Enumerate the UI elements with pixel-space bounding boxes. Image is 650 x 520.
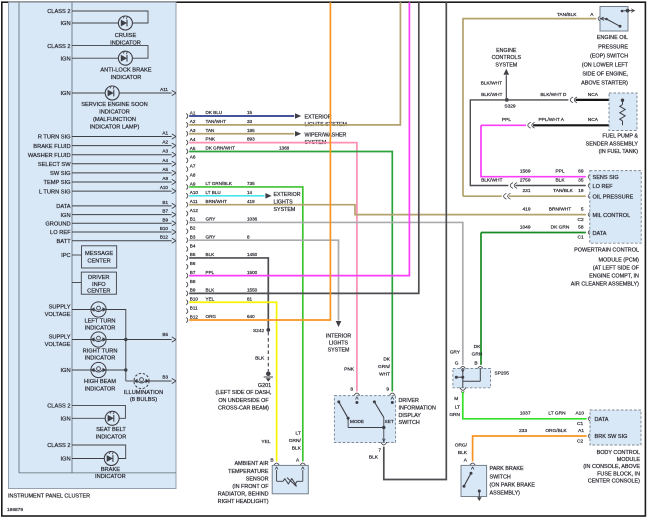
svg-text:BLK/WHT: BLK/WHT (481, 177, 502, 183)
svg-text:(MALFUNCTION: (MALFUNCTION (93, 117, 136, 123)
svg-text:PPL: PPL (555, 169, 564, 175)
svg-text:8: 8 (350, 387, 353, 393)
svg-text:(LEFT SIDE OF DASH,: (LEFT SIDE OF DASH, (216, 390, 272, 396)
svg-text:5: 5 (581, 207, 584, 213)
svg-text:LT: LT (455, 404, 460, 410)
svg-text:A9: A9 (162, 176, 168, 181)
svg-text:INDICATOR: INDICATOR (85, 386, 116, 392)
svg-text:14: 14 (247, 190, 253, 195)
svg-text:MODULE (PCM): MODULE (PCM) (599, 258, 640, 264)
svg-text:BRK SW SIG: BRK SW SIG (595, 434, 628, 440)
svg-text:BRAKE: BRAKE (101, 467, 120, 473)
svg-text:ABOVE STARTER): ABOVE STARTER) (581, 81, 628, 87)
svg-text:419: 419 (247, 199, 255, 204)
svg-text:BLK: BLK (555, 177, 565, 183)
svg-text:HIGH BEAM: HIGH BEAM (84, 379, 116, 385)
svg-text:MIL CONTROL: MIL CONTROL (593, 213, 631, 219)
svg-text:BLK: BLK (255, 356, 265, 362)
svg-text:BRAKE FLUID: BRAKE FLUID (33, 144, 70, 150)
svg-text:POWERTRAIN CONTROL: POWERTRAIN CONTROL (574, 248, 639, 254)
svg-text:SP205: SP205 (495, 370, 510, 376)
svg-text:B7: B7 (162, 209, 168, 214)
svg-text:B9: B9 (190, 288, 196, 293)
svg-text:INDICATOR: INDICATOR (95, 474, 126, 480)
svg-text:C1: C1 (578, 235, 584, 241)
svg-text:BATT: BATT (56, 239, 71, 245)
svg-text:A5: A5 (162, 167, 168, 172)
svg-text:81: 81 (247, 296, 253, 301)
svg-text:231: 231 (522, 188, 530, 194)
svg-text:INFORMATION: INFORMATION (399, 405, 436, 411)
svg-text:LIGHTS: LIGHTS (329, 340, 349, 346)
svg-text:TAN/BLK: TAN/BLK (553, 188, 573, 194)
svg-text:B4: B4 (190, 243, 196, 248)
svg-text:B1: B1 (190, 217, 196, 222)
svg-text:B8: B8 (190, 279, 196, 284)
svg-text:PARK BRAKE: PARK BRAKE (490, 466, 524, 472)
svg-text:INDICATOR: INDICATOR (85, 326, 116, 332)
svg-text:DRIVER: DRIVER (399, 398, 419, 404)
svg-text:ON UNDERSIDE OF: ON UNDERSIDE OF (218, 398, 269, 404)
svg-text:A3: A3 (190, 128, 196, 133)
svg-text:SUPPLY: SUPPLY (49, 304, 71, 310)
svg-text:EXTERIOR: EXTERIOR (305, 115, 332, 121)
svg-text:GRN/: GRN/ (378, 364, 391, 370)
svg-text:BODY CONTROL: BODY CONTROL (597, 450, 640, 456)
svg-text:A5: A5 (190, 146, 196, 151)
svg-text:BLK/WHT D: BLK/WHT D (540, 92, 567, 98)
svg-text:ENGINE OIL: ENGINE OIL (597, 35, 628, 41)
svg-text:IGN: IGN (60, 368, 70, 374)
svg-text:SUPPLY: SUPPLY (49, 334, 71, 340)
svg-text:CENTER CONSOLE): CENTER CONSOLE) (588, 478, 640, 484)
svg-text:FUEL PUMP &: FUEL PUMP & (602, 134, 638, 140)
svg-text:CLASS 2: CLASS 2 (47, 9, 70, 15)
svg-text:DATA: DATA (56, 204, 71, 210)
svg-text:DRIVER: DRIVER (88, 275, 110, 281)
svg-text:WASHER FLUID: WASHER FLUID (28, 153, 71, 159)
svg-text:ORG/BLK: ORG/BLK (545, 428, 567, 434)
svg-text:G: G (455, 361, 459, 367)
svg-text:9: 9 (386, 387, 389, 393)
svg-text:58: 58 (578, 224, 584, 230)
svg-text:RIGHT HEADLIGHT): RIGHT HEADLIGHT) (218, 499, 269, 505)
svg-text:A1: A1 (190, 110, 196, 115)
svg-text:B11: B11 (190, 305, 198, 310)
svg-text:A6: A6 (190, 155, 196, 160)
svg-text:A7: A7 (190, 164, 196, 169)
svg-text:TAN: TAN (206, 128, 215, 133)
svg-text:B3: B3 (190, 234, 196, 239)
svg-text:186879: 186879 (7, 507, 23, 513)
svg-text:M: M (454, 396, 458, 402)
svg-text:A4: A4 (190, 137, 196, 142)
svg-text:893: 893 (247, 137, 255, 142)
svg-text:LEFT TURN: LEFT TURN (84, 318, 115, 324)
svg-text:69: 69 (578, 169, 584, 175)
svg-text:B: B (270, 458, 273, 464)
svg-text:DATA: DATA (595, 417, 609, 423)
svg-text:1037: 1037 (520, 411, 531, 417)
svg-text:1036: 1036 (247, 217, 258, 222)
svg-text:BLK: BLK (369, 455, 379, 461)
svg-text:33: 33 (247, 119, 253, 124)
svg-text:AMBIENT AIR: AMBIENT AIR (234, 461, 268, 467)
svg-text:AIR CLEANER ASSEMBLY): AIR CLEANER ASSEMBLY) (571, 281, 639, 287)
svg-text:PPL: PPL (206, 270, 215, 275)
svg-text:LT BLU: LT BLU (206, 190, 221, 195)
svg-text:C2: C2 (577, 438, 583, 444)
svg-text:TEMP SIG: TEMP SIG (44, 180, 71, 186)
svg-text:SEAT BELT: SEAT BELT (96, 427, 126, 433)
svg-text:BRN/WHT: BRN/WHT (206, 199, 228, 204)
svg-text:B1: B1 (162, 200, 168, 205)
svg-text:(AT LEFT SIDE OF: (AT LEFT SIDE OF (593, 266, 640, 272)
svg-text:A2: A2 (162, 140, 168, 145)
svg-text:GRN: GRN (472, 351, 483, 357)
svg-text:ANTI-LOCK BRAKE: ANTI-LOCK BRAKE (100, 67, 151, 73)
svg-text:C1: C1 (577, 421, 583, 427)
svg-text:VOLTAGE: VOLTAGE (45, 312, 71, 318)
svg-text:A11: A11 (190, 199, 198, 204)
svg-text:B12: B12 (160, 235, 169, 240)
svg-text:SET: SET (385, 419, 394, 424)
svg-text:EXTERIOR: EXTERIOR (274, 192, 301, 198)
svg-text:S329: S329 (504, 104, 516, 110)
svg-text:IGN: IGN (60, 56, 70, 62)
svg-text:2759: 2759 (520, 177, 531, 183)
svg-text:CENTER: CENTER (87, 288, 110, 294)
svg-text:INDICATOR: INDICATOR (96, 434, 127, 440)
svg-text:B3: B3 (162, 374, 168, 379)
svg-text:A1: A1 (578, 428, 584, 434)
svg-text:B6: B6 (190, 261, 196, 266)
svg-text:INSTRUMENT PANEL CLUSTER: INSTRUMENT PANEL CLUSTER (8, 493, 90, 499)
svg-text:(8 BULBS): (8 BULBS) (130, 397, 157, 403)
svg-text:233: 233 (519, 428, 527, 434)
svg-text:FUSE BLOCK, IN: FUSE BLOCK, IN (597, 471, 640, 477)
svg-text:IGN: IGN (60, 91, 70, 97)
svg-text:C2: C2 (578, 217, 584, 223)
svg-text:TAN/WHT: TAN/WHT (206, 119, 227, 124)
svg-text:419: 419 (522, 207, 530, 213)
svg-text:IPC: IPC (61, 253, 70, 259)
svg-text:S242: S242 (253, 328, 265, 334)
svg-text:MODE: MODE (350, 419, 364, 424)
svg-text:B10: B10 (190, 297, 199, 302)
svg-text:VOLTAGE: VOLTAGE (45, 342, 71, 348)
svg-text:19: 19 (578, 188, 584, 194)
svg-text:BLK: BLK (458, 450, 468, 456)
svg-text:PNK: PNK (344, 367, 355, 373)
svg-text:640: 640 (247, 314, 255, 319)
svg-text:SERVICE ENGINE SOON: SERVICE ENGINE SOON (81, 102, 148, 108)
svg-text:NCA: NCA (588, 117, 599, 123)
svg-text:B5: B5 (162, 332, 168, 337)
svg-text:BLK: BLK (206, 288, 216, 293)
svg-text:INDICATOR: INDICATOR (111, 75, 142, 81)
svg-text:(EOP) SWITCH: (EOP) SWITCH (590, 53, 628, 59)
svg-text:SENDER ASSEMBLY: SENDER ASSEMBLY (586, 141, 639, 147)
svg-text:BRN/WHT: BRN/WHT (549, 207, 571, 213)
svg-text:ENGINE COMPT, IN: ENGINE COMPT, IN (589, 273, 639, 279)
svg-text:A4: A4 (162, 158, 168, 163)
svg-text:ORG: ORG (206, 314, 217, 319)
svg-text:GRY: GRY (450, 350, 461, 356)
svg-text:B7: B7 (190, 270, 196, 275)
svg-text:CLASS 2: CLASS 2 (47, 443, 70, 449)
svg-text:WHT: WHT (379, 371, 390, 377)
svg-text:A2: A2 (190, 119, 196, 124)
svg-text:B10: B10 (160, 226, 169, 231)
svg-text:INDICATOR: INDICATOR (99, 110, 130, 116)
svg-text:B12: B12 (190, 314, 199, 319)
svg-text:R TURN SIG: R TURN SIG (38, 135, 71, 141)
svg-text:DK: DK (474, 344, 481, 350)
svg-text:CONTROLS: CONTROLS (492, 55, 522, 61)
svg-text:BLK: BLK (292, 446, 302, 452)
svg-text:SELECT SW: SELECT SW (38, 162, 71, 168)
svg-text:(ON LOWER LEFT: (ON LOWER LEFT (582, 63, 629, 69)
svg-text:MODULE: MODULE (617, 457, 641, 463)
svg-text:7: 7 (378, 447, 381, 453)
svg-text:IGN: IGN (60, 417, 70, 423)
svg-text:GRY: GRY (206, 217, 216, 222)
svg-text:NCA: NCA (588, 92, 599, 98)
svg-text:MESSAGE: MESSAGE (85, 251, 113, 257)
svg-text:BLK/WHT: BLK/WHT (481, 81, 502, 87)
svg-text:DISPLAY: DISPLAY (399, 413, 422, 419)
svg-text:GRN/: GRN/ (289, 438, 302, 444)
svg-text:185: 185 (247, 128, 255, 133)
svg-text:35: 35 (578, 177, 584, 183)
svg-text:SYSTEM: SYSTEM (495, 62, 517, 68)
svg-text:(IN FRONT OF: (IN FRONT OF (232, 484, 269, 490)
svg-text:A8: A8 (190, 172, 196, 177)
svg-text:A9: A9 (190, 181, 196, 186)
svg-text:PNK: PNK (206, 137, 216, 142)
svg-text:ILLUMINATION: ILLUMINATION (124, 390, 163, 396)
svg-text:A3: A3 (162, 149, 168, 154)
svg-text:DK: DK (383, 356, 390, 362)
svg-text:A10: A10 (575, 411, 584, 417)
svg-text:A10: A10 (190, 190, 199, 195)
svg-text:A12: A12 (190, 208, 199, 213)
svg-text:INFO: INFO (92, 282, 106, 288)
svg-text:15: 15 (247, 110, 253, 115)
svg-text:L TURN SIG: L TURN SIG (39, 189, 71, 195)
svg-text:INDICATOR: INDICATOR (85, 356, 116, 362)
svg-text:LT: LT (296, 431, 301, 437)
svg-text:OIL PRESSURE: OIL PRESSURE (593, 195, 634, 201)
svg-text:ENGINE: ENGINE (496, 48, 517, 54)
svg-text:SWITCH: SWITCH (490, 474, 511, 480)
svg-text:GROUND: GROUND (45, 222, 70, 228)
svg-text:INDICATOR LAMP): INDICATOR LAMP) (90, 124, 140, 130)
svg-text:DATA: DATA (593, 231, 607, 237)
svg-text:BLK/WHT: BLK/WHT (481, 92, 502, 98)
svg-text:CRUISE: CRUISE (115, 33, 137, 39)
svg-text:RIGHT TURN: RIGHT TURN (83, 348, 118, 354)
svg-text:SIDE OF ENGINE,: SIDE OF ENGINE, (582, 72, 628, 78)
svg-text:A1: A1 (162, 131, 168, 136)
svg-text:DK GRN/WHT: DK GRN/WHT (206, 146, 236, 151)
svg-text:CENTER: CENTER (87, 258, 110, 264)
svg-text:CROSS-CAR BEAM): CROSS-CAR BEAM) (218, 406, 269, 412)
svg-text:B9: B9 (162, 217, 168, 222)
svg-text:DK BLU: DK BLU (206, 110, 223, 115)
svg-text:SYSTEM: SYSTEM (328, 348, 350, 354)
svg-text:GRN: GRN (449, 412, 460, 418)
svg-text:TAN/BLK: TAN/BLK (557, 12, 577, 18)
svg-text:A10: A10 (160, 185, 169, 190)
svg-text:PRESSURE: PRESSURE (598, 44, 628, 50)
svg-text:TEMPERATURE: TEMPERATURE (228, 469, 269, 475)
svg-text:YEL: YEL (206, 296, 215, 301)
svg-text:(IN CONSOLE, ABOVE: (IN CONSOLE, ABOVE (583, 464, 640, 470)
svg-text:B5: B5 (190, 252, 196, 257)
svg-text:B2: B2 (190, 226, 196, 231)
svg-text:CLASS 2: CLASS 2 (47, 44, 70, 50)
svg-text:1589: 1589 (520, 169, 531, 175)
svg-text:BLK: BLK (206, 252, 216, 257)
svg-text:(IN FUEL TANK): (IN FUEL TANK) (599, 149, 639, 155)
svg-text:LT GRN: LT GRN (548, 411, 566, 417)
svg-text:CLASS 2: CLASS 2 (47, 404, 70, 410)
svg-text:ORG/: ORG/ (455, 442, 468, 448)
svg-text:8: 8 (247, 234, 250, 239)
svg-text:1500: 1500 (247, 270, 258, 275)
svg-text:B: B (474, 361, 477, 367)
svg-text:WIPER/WASHER: WIPER/WASHER (305, 133, 347, 139)
svg-text:1450: 1450 (247, 252, 258, 257)
svg-text:1550: 1550 (247, 288, 258, 293)
svg-text:IGN: IGN (60, 457, 70, 463)
svg-text:LT GRN/BLK: LT GRN/BLK (206, 181, 233, 186)
svg-text:PPL: PPL (502, 117, 511, 123)
svg-text:A11: A11 (160, 87, 168, 92)
svg-text:YEL: YEL (261, 439, 270, 445)
svg-text:SWITCH: SWITCH (399, 420, 420, 426)
svg-text:GRY: GRY (206, 234, 216, 239)
svg-text:SYSTEM: SYSTEM (274, 207, 296, 213)
svg-text:LO REF: LO REF (50, 230, 71, 236)
svg-text:LO REF: LO REF (593, 184, 614, 190)
svg-text:1368: 1368 (279, 146, 290, 151)
svg-text:735: 735 (247, 181, 255, 186)
svg-text:IGN: IGN (60, 213, 70, 219)
svg-text:G201: G201 (258, 383, 271, 389)
svg-text:ASSEMBLY): ASSEMBLY) (490, 491, 521, 497)
svg-text:IGN: IGN (60, 21, 70, 27)
svg-text:SENS SIG: SENS SIG (593, 175, 619, 181)
svg-text:PPL/WHT A: PPL/WHT A (538, 117, 564, 123)
svg-text:SW SIG: SW SIG (50, 171, 71, 177)
svg-text:RADIATOR, BEHIND: RADIATOR, BEHIND (218, 492, 269, 498)
svg-text:SENSOR: SENSOR (246, 476, 269, 482)
svg-text:(ON PARK BRAKE: (ON PARK BRAKE (490, 482, 536, 488)
svg-text:1049: 1049 (520, 224, 531, 230)
svg-text:DK GRN: DK GRN (551, 224, 570, 230)
svg-text:INTERIOR: INTERIOR (326, 333, 351, 339)
